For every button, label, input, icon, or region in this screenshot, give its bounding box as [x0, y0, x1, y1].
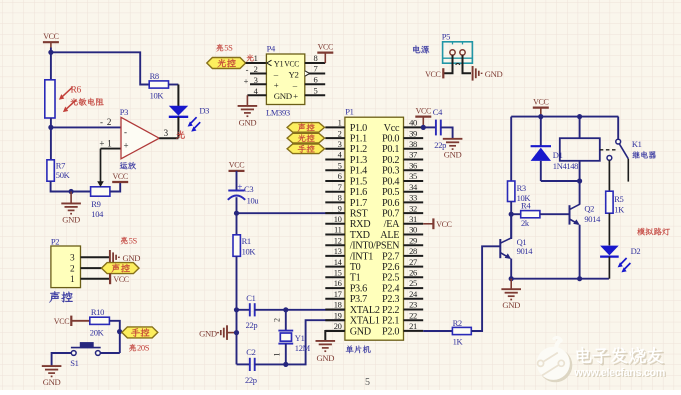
svg-text:+: + — [99, 139, 104, 149]
crystal Y1 — [285, 310, 287, 331]
svg-text:1K: 1K — [453, 337, 464, 347]
svg-text:VCC: VCC — [425, 70, 440, 79]
power VCC at pin31 /EA — [423, 223, 433, 225]
P1 pin 20 (GND) — [325, 330, 345, 332]
wire node A down to R7 — [50, 127, 52, 159]
svg-text:-: - — [100, 117, 103, 127]
svg-text:9: 9 — [338, 203, 342, 213]
svg-text:36: 36 — [409, 160, 417, 170]
svg-text:C4: C4 — [433, 107, 443, 117]
svg-text:20S: 20S — [137, 343, 150, 353]
junction at VCC node — [48, 50, 53, 55]
resistor R7 — [47, 160, 54, 181]
svg-text:GND: GND — [502, 300, 520, 310]
wire R1 down to C1/C2 rail — [236, 256, 238, 310]
P1 pin 2 (P1.1) — [325, 137, 345, 139]
svg-text:R2: R2 — [453, 318, 462, 328]
svg-text:38: 38 — [409, 139, 417, 149]
P1 pin 39 (P0.0) — [404, 137, 424, 139]
ground bottom — [510, 279, 512, 289]
svg-text:VCC: VCC — [533, 97, 548, 106]
wire down to LED D3 — [177, 85, 179, 107]
ground at pin20 — [325, 331, 345, 341]
wire D1 bottom to relay bottom — [541, 180, 580, 182]
wire down to R6 — [50, 52, 52, 80]
P1 pin 5 (P1.4) — [325, 169, 345, 171]
wire R5 to D2 — [608, 213, 610, 245]
P1 pin 22 (P2.1) — [404, 319, 424, 321]
svg-text:40: 40 — [409, 118, 417, 128]
net flag 声控 pin1 — [287, 123, 324, 133]
junction crystal top — [283, 307, 288, 312]
light arrows into R6 — [61, 87, 73, 98]
P1 pin 15 (T1) — [325, 276, 345, 278]
svg-text:12: 12 — [334, 235, 342, 245]
P1 pin 12 (/INT0) — [325, 244, 345, 246]
svg-text:Y1: Y1 — [274, 59, 284, 69]
svg-text:VCC: VCC — [54, 317, 69, 326]
svg-text:P0.6: P0.6 — [382, 198, 399, 209]
svg-text:50K: 50K — [56, 170, 71, 180]
P1 pin 31 (/EA) — [404, 223, 424, 225]
svg-text:31: 31 — [409, 214, 417, 224]
R9 wiper arrow — [100, 149, 102, 182]
svg-text:14: 14 — [334, 257, 343, 267]
P1 pin 40 (Vcc) — [404, 126, 424, 128]
svg-text:P2: P2 — [51, 236, 59, 246]
svg-text:9014: 9014 — [517, 246, 534, 256]
resistor R5 — [606, 191, 613, 213]
resistor R8 — [149, 81, 168, 88]
ground at P5 — [472, 66, 474, 81]
svg-text:2k: 2k — [521, 218, 530, 228]
net label 亮5S — [216, 44, 223, 51]
svg-text:P0.2: P0.2 — [382, 155, 399, 166]
svg-text:30: 30 — [409, 225, 417, 235]
P1 pin 9 (RST) — [325, 212, 345, 214]
P1 pin 37 (P0.2) — [404, 159, 424, 161]
svg-text:32: 32 — [409, 203, 417, 213]
svg-text:D3: D3 — [199, 106, 209, 116]
ground at P4 pin4 — [246, 95, 248, 105]
svg-text:R10: R10 — [91, 307, 104, 317]
svg-text:P0.5: P0.5 — [382, 187, 399, 198]
svg-text:2: 2 — [254, 64, 258, 74]
svg-text:+: + — [237, 182, 242, 192]
wire C4 to GND — [441, 127, 453, 138]
P1 pin 14 (T0) — [325, 266, 345, 268]
svg-text:3: 3 — [70, 254, 75, 264]
svg-text:Vcc: Vcc — [384, 123, 400, 134]
P4 pin1 clock mark and labels — [267, 60, 272, 66]
svg-text:GND: GND — [239, 118, 257, 128]
svg-text:P2.4: P2.4 — [382, 283, 399, 294]
wire S1 right to junction column — [100, 352, 120, 354]
svg-text:26: 26 — [409, 268, 417, 278]
svg-text:/PSEN: /PSEN — [373, 241, 400, 252]
P1 pin 16 (P3.6) — [325, 287, 345, 289]
svg-text:1N4148: 1N4148 — [553, 161, 578, 171]
svg-text:35: 35 — [409, 171, 417, 181]
P1 pin 4 (P1.3) — [325, 159, 345, 161]
svg-text:2: 2 — [107, 117, 111, 127]
svg-text:1K: 1K — [614, 204, 625, 214]
svg-text:20K: 20K — [90, 328, 105, 338]
wire pin40 to C4 — [423, 126, 436, 128]
svg-text:8: 8 — [338, 193, 342, 203]
P4 pin4 — [247, 94, 266, 96]
svg-text:www.elecfans.com: www.elecfans.com — [573, 367, 665, 379]
svg-text:P1.7: P1.7 — [350, 198, 367, 209]
capacitor C4 — [435, 120, 437, 136]
svg-text:P2.5: P2.5 — [382, 273, 399, 284]
power VCC at P2 pin1 — [109, 273, 111, 284]
svg-text:5: 5 — [314, 85, 318, 95]
svg-text:5: 5 — [365, 377, 370, 388]
svg-text:10u: 10u — [247, 195, 260, 205]
wire R6 to node A — [50, 118, 52, 127]
svg-text:K1: K1 — [632, 139, 642, 149]
svg-text:19: 19 — [334, 310, 342, 320]
wire rail down to C2 — [236, 310, 238, 365]
net flag 手控 — [122, 327, 158, 338]
transistor Q1 — [499, 239, 501, 258]
svg-text:TXD: TXD — [350, 230, 370, 241]
wire R7 to GND rail / R9 — [51, 181, 91, 191]
svg-text:Q2: Q2 — [584, 204, 594, 214]
svg-text:1: 1 — [338, 118, 342, 128]
svg-text:P2.7: P2.7 — [382, 251, 399, 262]
P4 pin7 output marker — [305, 71, 310, 76]
junction RST node — [234, 211, 239, 216]
wire top horizontal to R8 — [51, 52, 149, 84]
wire op-amp + input — [101, 148, 122, 150]
relay switch K1 — [617, 117, 619, 140]
svg-text:29: 29 — [409, 235, 417, 245]
ground at P2 pin3 — [109, 250, 111, 265]
svg-text:VCC: VCC — [229, 161, 244, 170]
net label 亮5S at P2 — [121, 237, 128, 244]
svg-text:39: 39 — [409, 128, 417, 138]
svg-text:GND: GND — [444, 150, 462, 160]
ground GND left — [70, 192, 72, 204]
wire S1 left to GND — [52, 353, 72, 366]
relay mechanical dashed link — [600, 149, 617, 151]
svg-text:C1: C1 — [246, 293, 255, 303]
net flag 光控 pin2 — [287, 133, 324, 143]
svg-text:R9: R9 — [91, 199, 100, 209]
wire junction down to Q1 collector — [510, 214, 512, 239]
svg-text:RST: RST — [350, 209, 369, 220]
svg-text:ALE: ALE — [380, 230, 399, 241]
op-amp output wire pin 3 — [159, 137, 178, 139]
svg-text:6: 6 — [338, 171, 342, 181]
P1 pin 3 (P1.2) — [325, 148, 345, 150]
P1 pin 17 (P3.7) — [325, 298, 345, 300]
svg-text:11: 11 — [334, 225, 342, 235]
P1 pin 29 (/PSEN) — [404, 244, 424, 246]
label 光敏电阻 — [70, 98, 77, 105]
bottom ground rail — [511, 278, 609, 280]
svg-text:10: 10 — [334, 214, 342, 224]
wire R2 up to Q1 base — [471, 246, 500, 331]
svg-text:P1.6: P1.6 — [350, 187, 367, 198]
svg-text:12M: 12M — [295, 343, 311, 353]
wire C1 to XTAL2 pin18 — [286, 309, 345, 311]
svg-text:VCC: VCC — [318, 42, 333, 51]
P5 pin wires — [444, 55, 453, 73]
top rail wire — [511, 116, 618, 118]
svg-text:P0.4: P0.4 — [382, 176, 399, 187]
svg-text:VCC: VCC — [284, 59, 299, 69]
svg-text:R6: R6 — [71, 86, 82, 96]
svg-text:R8: R8 — [150, 71, 159, 81]
resistor R1 — [233, 235, 240, 256]
svg-text:20: 20 — [334, 321, 342, 331]
svg-text:P1.2: P1.2 — [350, 144, 367, 155]
wire crystal bottom to XTAL1 pin19 — [286, 320, 345, 364]
P1 pin 6 (P1.5) — [325, 180, 345, 182]
svg-text:VCC: VCC — [43, 32, 58, 41]
svg-text:5S: 5S — [129, 235, 138, 245]
svg-text:16: 16 — [334, 278, 342, 288]
svg-text:GND: GND — [274, 91, 292, 101]
svg-text:10K: 10K — [150, 90, 165, 100]
svg-text:37: 37 — [409, 150, 417, 160]
relay coil K1 — [579, 117, 581, 139]
P1 pin 30 (ALE) — [404, 234, 424, 236]
svg-text:25: 25 — [409, 278, 417, 288]
svg-text:P1: P1 — [345, 107, 353, 117]
wire relay node down to Q2 collector — [579, 181, 581, 205]
svg-text:1: 1 — [70, 275, 75, 285]
svg-text:+: + — [274, 80, 279, 90]
svg-text:2: 2 — [273, 318, 282, 322]
svg-text:C2: C2 — [246, 347, 255, 357]
P4 pin3 — [250, 83, 266, 85]
svg-text:1: 1 — [254, 53, 258, 63]
P1 pin 1 (P1.0) — [325, 126, 345, 128]
P1 pin 18 (XTAL2) — [325, 309, 345, 311]
svg-text:VCC: VCC — [436, 220, 451, 229]
svg-text:P0.3: P0.3 — [382, 166, 399, 177]
P4 pin2 — [250, 73, 266, 75]
label 运放 — [120, 162, 128, 169]
LED D2 — [600, 246, 619, 256]
svg-text:P1.5: P1.5 — [350, 176, 367, 187]
svg-text:2: 2 — [70, 264, 75, 274]
svg-text:15: 15 — [334, 268, 342, 278]
svg-text:C3: C3 — [244, 184, 253, 194]
resistor R6 photoresistor — [45, 80, 55, 118]
svg-text:23: 23 — [409, 300, 417, 310]
svg-text:D1: D1 — [553, 150, 563, 160]
svg-text:P1.1: P1.1 — [350, 134, 367, 145]
svg-text:GND: GND — [199, 328, 217, 338]
P1 pin 33 (P0.6) — [404, 201, 424, 203]
svg-text:RXD: RXD — [350, 219, 371, 230]
label 模拟路灯 — [637, 228, 645, 235]
svg-text:P4: P4 — [267, 44, 276, 54]
P1 pin 11 (TXD) — [325, 234, 345, 236]
label 电源 — [413, 45, 420, 53]
svg-text:T1: T1 — [350, 273, 361, 284]
svg-text:GND: GND — [43, 377, 61, 387]
svg-text:T0: T0 — [350, 262, 361, 273]
P1 pin 8 (P1.7) — [325, 201, 345, 203]
svg-text:6: 6 — [314, 74, 318, 84]
svg-text:/INT1: /INT1 — [350, 251, 374, 262]
resistor R4 — [511, 213, 521, 215]
wire K1 contact to R5 — [608, 160, 610, 191]
svg-text:P1.0: P1.0 — [350, 123, 367, 134]
svg-text:D2: D2 — [631, 246, 641, 256]
P1 pin 25 (P2.4) — [404, 287, 424, 289]
svg-text:1: 1 — [107, 139, 111, 149]
svg-text:24: 24 — [409, 289, 418, 299]
diode D1 — [540, 117, 542, 146]
net flag 手控 pin3 — [287, 144, 324, 154]
junction crystal bottom — [283, 362, 288, 367]
svg-text:22p: 22p — [434, 140, 446, 150]
capacitor C1 — [237, 309, 250, 311]
potentiometer R9 — [91, 187, 110, 196]
wire R9 to VCC — [110, 182, 120, 192]
svg-text:33: 33 — [409, 193, 417, 203]
watermark logo elecfans — [537, 337, 573, 382]
svg-text:104: 104 — [91, 209, 104, 219]
P4 right pins 8..5 — [305, 62, 325, 64]
svg-text:P0.1: P0.1 — [382, 144, 399, 155]
svg-text:P3.7: P3.7 — [350, 294, 367, 305]
svg-text:LM393: LM393 — [266, 107, 290, 117]
P1 pin 28 (P2.7) — [404, 255, 424, 257]
svg-text:GND: GND — [123, 253, 141, 263]
D3 light arrows — [190, 117, 197, 124]
svg-text:21: 21 — [409, 321, 417, 331]
wire R10 to junction — [109, 321, 119, 353]
svg-text:P2.2: P2.2 — [382, 305, 399, 316]
wire node A to op-amp inverting input — [51, 126, 121, 128]
P1 pin 7 (P1.6) — [325, 191, 345, 193]
junction node A — [48, 125, 53, 130]
svg-text:P3.6: P3.6 — [350, 283, 367, 294]
svg-text:P3: P3 — [120, 107, 128, 117]
wire down to R3 — [510, 117, 512, 181]
wire R4 to Q2 base — [540, 213, 570, 215]
svg-text:R1: R1 — [242, 236, 251, 246]
svg-text:7: 7 — [338, 182, 342, 192]
wire pin21 to R2 — [423, 330, 452, 332]
svg-text:P1.4: P1.4 — [350, 166, 367, 177]
resistor R3 — [508, 181, 515, 202]
svg-text:3: 3 — [338, 139, 342, 149]
svg-text:22p: 22p — [245, 375, 257, 385]
wire R3 to junction — [510, 202, 512, 215]
svg-text:P5: P5 — [442, 31, 450, 41]
wire down to R1 — [236, 213, 238, 235]
P1 pin 27 (P2.6) — [404, 266, 424, 268]
svg-text:27: 27 — [409, 257, 417, 267]
svg-text:VCC: VCC — [113, 275, 128, 284]
svg-text:34: 34 — [409, 182, 418, 192]
switch S1 — [80, 343, 93, 348]
svg-text:/EA: /EA — [384, 219, 400, 230]
svg-text:+: + — [244, 76, 249, 86]
svg-text:1: 1 — [273, 353, 282, 357]
wire VCC to node — [50, 48, 52, 53]
svg-text:GND: GND — [485, 69, 503, 79]
svg-text:VCC: VCC — [416, 106, 431, 115]
label 单片机 — [346, 345, 354, 353]
svg-text:R5: R5 — [614, 194, 623, 204]
svg-text:/INT0: /INT0 — [350, 241, 374, 252]
svg-text:22p: 22p — [246, 320, 258, 330]
net label 光 — [176, 131, 184, 139]
wire VCC to C3 — [236, 171, 238, 190]
D2 light arrows — [620, 258, 627, 265]
P1 pin 26 (P2.5) — [404, 276, 424, 278]
op-amp P3 — [121, 117, 159, 159]
junction C1 node — [234, 307, 239, 312]
svg-text:7: 7 — [314, 64, 318, 74]
svg-text:18: 18 — [334, 300, 342, 310]
transistor Q2 — [569, 205, 571, 224]
svg-text:2: 2 — [338, 128, 342, 138]
svg-text:XTAL1: XTAL1 — [350, 316, 380, 327]
wire R8 to D3 — [169, 84, 179, 86]
resistor R10 — [90, 317, 110, 324]
P1 pin 23 (P2.2) — [404, 309, 424, 311]
net flag 声控 at P2 pin2 — [102, 263, 140, 274]
svg-text:Y1: Y1 — [295, 333, 305, 343]
P1 pin 35 (P0.4) — [404, 180, 424, 182]
svg-text:P1.3: P1.3 — [350, 155, 367, 166]
P1 pin 32 (P0.7) — [404, 212, 424, 214]
svg-text:Y2: Y2 — [289, 69, 299, 79]
junction GND tap — [69, 189, 74, 194]
svg-text:XTAL2: XTAL2 — [350, 305, 380, 316]
capacitor C3 polarized — [228, 190, 244, 192]
net label 亮20S — [129, 344, 136, 351]
wire flag to P4 pin1 — [246, 62, 267, 64]
resistor R2 — [452, 327, 471, 334]
wire RST node to pin 9 — [237, 212, 345, 214]
svg-text:R4: R4 — [521, 201, 531, 211]
wire Q1 collector up — [510, 214, 512, 238]
svg-text:P2.6: P2.6 — [382, 262, 399, 273]
svg-text:P2.0: P2.0 — [382, 326, 399, 337]
LED D3 — [169, 106, 188, 116]
svg-text:R3: R3 — [517, 183, 526, 193]
svg-text:28: 28 — [409, 246, 417, 256]
P1 pin 36 (P0.3) — [404, 169, 424, 171]
svg-text:8: 8 — [314, 53, 318, 63]
svg-text:GND: GND — [317, 353, 335, 363]
svg-text:+: + — [124, 140, 129, 150]
P1 pin 19 (XTAL1) — [325, 319, 345, 321]
P1 pin 34 (P0.5) — [404, 191, 424, 193]
svg-text:P0.7: P0.7 — [382, 209, 399, 220]
svg-text:5: 5 — [338, 160, 342, 170]
svg-text:P2.3: P2.3 — [382, 294, 399, 305]
svg-text:5S: 5S — [224, 43, 233, 53]
P1 pin 10 (RXD) — [325, 223, 345, 225]
ground at S1 — [42, 365, 62, 367]
P1 pin 38 (P0.1) — [404, 148, 424, 150]
P1 pin 13 (/INT1) — [325, 255, 345, 257]
P1 pin 24 (P2.3) — [404, 298, 424, 300]
